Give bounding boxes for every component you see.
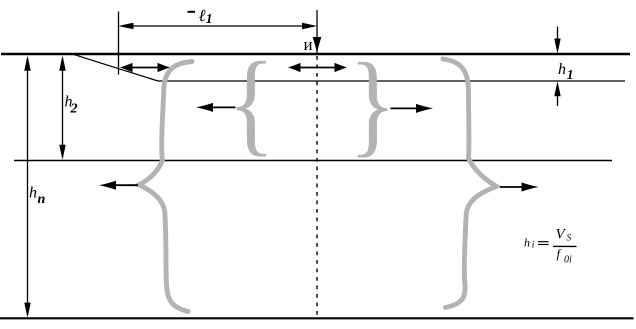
svg-text:0i: 0i	[564, 255, 572, 266]
dimension l1: horizontal dimension line	[122, 25, 313, 27]
svg-text:1: 1	[206, 11, 213, 26]
big brace left (layer n, opening right)	[139, 62, 192, 312]
svg-text:}: }	[349, 40, 396, 168]
dimension h2 vertical line	[62, 58, 64, 157]
layer-1 bottom interface line	[158, 80, 625, 82]
double arrow left (layer1 motion)	[128, 67, 162, 69]
arrow right from big brace (layer n)	[500, 186, 523, 188]
formula h_i = V_S / f_0i	[524, 226, 577, 265]
hn top arrowhead (up)	[24, 56, 30, 71]
ground surface line (top thick)	[1, 53, 630, 56]
arrow right from brace (layer 2)	[391, 107, 418, 109]
svg-text:S: S	[567, 233, 572, 243]
svg-text:n: n	[38, 192, 46, 207]
dashed vertical center line	[316, 56, 318, 318]
dimension hn vertical line	[27, 58, 29, 315]
dimension h1: upper arrow (down)	[557, 27, 559, 48]
svg-text:h: h	[29, 184, 37, 201]
brace right (layer 2, opening left)	[349, 40, 396, 168]
diagonal wedge line	[74, 55, 158, 81]
layer-2 bottom interface line	[14, 160, 612, 162]
big brace right (layer n, opening left)	[443, 59, 497, 308]
svg-text:ℓ: ℓ	[199, 6, 206, 25]
dimension l1: extension line right (above surface)	[316, 10, 318, 54]
svg-text:и: и	[304, 35, 313, 54]
source arrow (down, fat) at center	[313, 37, 322, 54]
hn bottom arrowhead (down)	[24, 303, 30, 318]
label minus sign of l1	[188, 11, 196, 13]
dimension h1: lower arrow (up)	[557, 90, 559, 106]
bottom halfspace line (thick)	[0, 317, 634, 319]
svg-text:1: 1	[567, 67, 574, 82]
svg-text:i: i	[532, 241, 535, 251]
svg-text:h: h	[524, 235, 530, 249]
dimension l1: right arrowhead	[302, 23, 317, 29]
arrow left from big brace (layer n)	[113, 184, 138, 186]
dimension l1: extension line left	[118, 12, 120, 75]
double arrow center (layer1 motion at source)	[296, 67, 339, 69]
dimension l1: left arrowhead	[119, 23, 134, 29]
svg-text:2: 2	[70, 102, 78, 117]
h2 bottom arrowhead (down)	[59, 145, 65, 160]
h2 top arrowhead (up)	[59, 56, 65, 71]
arrow left from brace (layer 2)	[212, 106, 236, 108]
svg-text:h: h	[558, 61, 566, 78]
svg-text:{: {	[228, 39, 275, 167]
brace left (layer 2, opening right)	[228, 39, 275, 167]
